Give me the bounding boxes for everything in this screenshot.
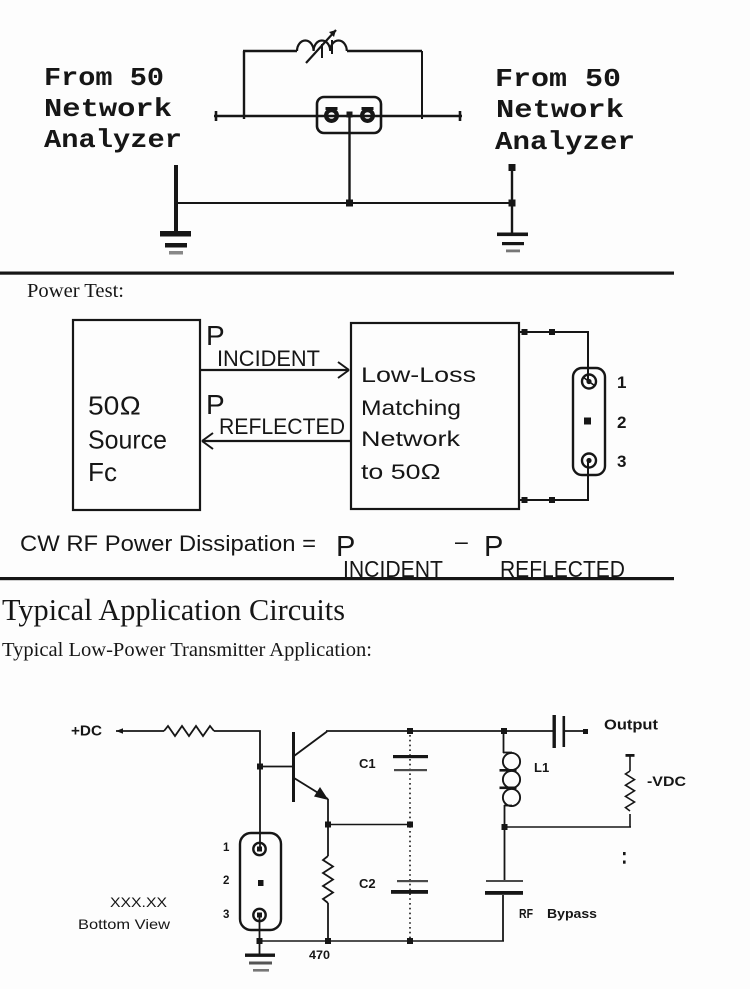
svg-text:-VDC: -VDC bbox=[647, 773, 686, 789]
svg-text:RF: RF bbox=[519, 907, 533, 921]
svg-text:From 50: From 50 bbox=[495, 64, 621, 94]
svg-text:INCIDENT: INCIDENT bbox=[217, 346, 320, 371]
label: L1 bbox=[534, 760, 549, 775]
pin 1: package top terminal bbox=[253, 843, 265, 855]
svg-text:Analyzer: Analyzer bbox=[44, 125, 182, 155]
svg-text:C1: C1 bbox=[359, 756, 376, 771]
node: base junction on vertical feed bbox=[257, 764, 263, 770]
label: 50 ohm Source Fc bbox=[88, 391, 167, 488]
node: junction ticks on bottom wire bbox=[522, 497, 556, 503]
transistor Q1: NPN (base bar, collector, emitter) bbox=[294, 732, 329, 803]
wire: emitter node to C1/C2 column bbox=[327, 824, 410, 826]
node: junction ticks on top wire bbox=[522, 329, 556, 335]
label: pin number 2 bbox=[617, 413, 626, 432]
capacitor: output coupling cap bbox=[553, 715, 589, 748]
wire: main horizontal test line bbox=[214, 111, 462, 121]
svg-text:Typical Application Circuits: Typical Application Circuits bbox=[2, 592, 345, 627]
wire: base lead bbox=[260, 766, 292, 768]
svg-text:3: 3 bbox=[617, 452, 626, 471]
wire: matching network top to DUT pin 1 bbox=[519, 332, 588, 382]
capacitor: RF bypass bbox=[485, 880, 523, 941]
label: Typical Low-Power Transmitter Application subheading bbox=[2, 639, 372, 661]
svg-text:Bottom View: Bottom View bbox=[78, 916, 171, 932]
node: junction of center tab and ground bus bbox=[346, 200, 353, 207]
arrow: variable-adjust arrow through coil bbox=[306, 30, 336, 63]
label: Typical Application Circuits heading bbox=[2, 592, 345, 627]
wire: dotted trimmer column bbox=[409, 735, 411, 938]
svg-text:2: 2 bbox=[223, 875, 229, 887]
label: pin number 1 bbox=[617, 373, 626, 392]
arrow: reflected power (right box to left box) bbox=[202, 433, 351, 449]
svg-text:Network: Network bbox=[361, 427, 460, 451]
label: +DC supply bbox=[71, 724, 103, 740]
label: RF Bypass bbox=[519, 907, 597, 921]
svg-text:1: 1 bbox=[617, 373, 626, 392]
block: low-loss matching network box bbox=[351, 323, 519, 509]
capacitor C2 bbox=[391, 880, 428, 894]
svg-text:Low-Loss: Low-Loss bbox=[361, 363, 476, 387]
pin 1: DUT top terminal bbox=[582, 375, 596, 389]
svg-text:+DC: +DC bbox=[71, 724, 103, 740]
label: From 50 Network Analyzer (left) bbox=[44, 63, 182, 155]
device: transistor package bottom view outline bbox=[240, 833, 281, 930]
pin: DUT center tab bbox=[347, 112, 353, 118]
svg-text:Analyzer: Analyzer bbox=[495, 127, 635, 157]
rule: section divider below formula bbox=[0, 577, 674, 580]
ground: transmitter earth symbol bbox=[245, 954, 275, 972]
ground: left earth symbol bbox=[160, 231, 191, 255]
wire: top branch right segment bbox=[347, 50, 422, 52]
label: Output bbox=[604, 718, 658, 734]
svg-text:XXX.XX: XXX.XX bbox=[110, 894, 168, 910]
wire: bottom return bus bbox=[259, 940, 504, 942]
device under test: 2-terminal package (top view) bbox=[317, 97, 381, 133]
label: P REFLECTED bbox=[206, 389, 345, 439]
label: C1 bbox=[359, 756, 376, 771]
svg-text:3: 3 bbox=[223, 909, 229, 921]
svg-text:Fc: Fc bbox=[88, 457, 117, 487]
svg-text:Matching: Matching bbox=[361, 396, 461, 420]
node: ground junction bbox=[257, 938, 263, 944]
label: Power Test heading bbox=[27, 280, 124, 302]
label: -VDC bbox=[647, 773, 686, 789]
resistor: -VDC dropping resistor bbox=[626, 771, 635, 827]
label: P INCIDENT bbox=[206, 320, 320, 371]
svg-text:1: 1 bbox=[223, 842, 230, 854]
svg-text:to 50Ω: to 50Ω bbox=[361, 460, 441, 484]
node: junction on dotted column mid bbox=[407, 822, 413, 828]
arrow: incident power (left box to right box) bbox=[200, 362, 349, 378]
wire: top branch left segment bbox=[243, 50, 297, 52]
pin 3: DUT bottom terminal bbox=[582, 454, 596, 468]
inductor: variable tuning coil bbox=[297, 40, 347, 51]
svg-text:Power Test:: Power Test: bbox=[27, 280, 124, 302]
wire: L1 top feed bbox=[503, 731, 512, 753]
wire: left ground drop bbox=[174, 165, 178, 232]
svg-text:C2: C2 bbox=[359, 876, 376, 891]
pin 2: DUT center tab bbox=[584, 418, 591, 425]
svg-text:2: 2 bbox=[617, 413, 626, 432]
svg-text:Network: Network bbox=[496, 95, 624, 125]
block: 50 ohm source box bbox=[73, 320, 200, 510]
svg-text:From 50: From 50 bbox=[44, 63, 164, 93]
svg-text:50Ω: 50Ω bbox=[88, 391, 141, 421]
svg-text:L1: L1 bbox=[534, 760, 549, 775]
wire: collector rail (top rail) bbox=[326, 730, 554, 732]
label: CW RF Power Dissipation formula bbox=[20, 528, 625, 582]
label: C2 bbox=[359, 876, 376, 891]
label: package pin 2 bbox=[223, 875, 229, 887]
svg-text:REFLECTED: REFLECTED bbox=[219, 414, 345, 439]
wire: package pin3 to ground node bbox=[259, 915, 261, 954]
svg-text:Output: Output bbox=[604, 718, 658, 734]
node: junction of bottom bus and dotted column bbox=[407, 938, 413, 944]
svg-text:CW RF Power Dissipation =: CW RF Power Dissipation = bbox=[20, 531, 316, 556]
wire: resistor to base node column bbox=[214, 731, 260, 849]
device under test: 3-pin package (side view) bbox=[573, 368, 605, 475]
rule: section divider above Power Test bbox=[0, 272, 674, 275]
wire: right ground drop bbox=[509, 164, 516, 233]
wire: matching network bottom to DUT pin 3 bbox=[519, 459, 588, 500]
arrow: -VDC feed tick bbox=[626, 754, 635, 771]
resistor: emitter resistor 470 bbox=[323, 856, 333, 941]
node: junction of top rail and L1 column bbox=[501, 728, 507, 734]
node: junction of top rail and C1 column bbox=[407, 728, 413, 734]
svg-text:–: – bbox=[455, 528, 468, 554]
wire: emitter drop to resistor bbox=[327, 799, 329, 856]
svg-text:Bypass: Bypass bbox=[547, 907, 597, 921]
label: XXX.XX Bottom View bbox=[78, 894, 171, 932]
pin: DUT right terminal bbox=[362, 107, 374, 121]
node: junction of ground bus and right drop bbox=[509, 200, 516, 207]
wire: DUT center tab to ground bus bbox=[348, 117, 350, 204]
node: dotted continuation marks bbox=[623, 852, 626, 864]
label: 470 resistor value bbox=[309, 948, 330, 962]
wire: bypass node to -VDC resistor bbox=[504, 826, 631, 828]
wire: right riser of parallel branch bbox=[421, 51, 423, 119]
pin 3: package bottom terminal bbox=[253, 909, 265, 921]
svg-text:470: 470 bbox=[309, 948, 330, 962]
label: package pin 3 bbox=[223, 909, 229, 921]
wire: bottom ground bus bbox=[176, 202, 512, 204]
node: bypass junction bbox=[502, 824, 508, 830]
inductor L1 bbox=[500, 753, 521, 806]
svg-text:Source: Source bbox=[88, 425, 167, 455]
pin: DUT left terminal bbox=[326, 107, 338, 121]
svg-text:Network: Network bbox=[44, 94, 172, 124]
wire: left riser of parallel branch bbox=[243, 51, 245, 119]
node: junction of emitter resistor and bottom bus bbox=[325, 938, 331, 944]
node: emitter junction bbox=[325, 822, 331, 828]
label: From 50 Network Analyzer (right) bbox=[495, 64, 635, 157]
label: package pin 1 bbox=[223, 842, 230, 854]
pin 2: package center tab bbox=[258, 880, 264, 886]
resistor: DC feed resistor bbox=[164, 726, 214, 736]
ground: right earth symbol bbox=[497, 233, 528, 253]
wire: L1 bottom to bypass node bbox=[504, 805, 512, 880]
svg-text:Typical Low-Power Transmitter: Typical Low-Power Transmitter Applicatio… bbox=[2, 639, 372, 661]
wire: +DC feed to resistor bbox=[116, 728, 164, 734]
label: pin number 3 bbox=[617, 452, 626, 471]
label: Low-Loss Matching Network to 50 ohm bbox=[361, 363, 476, 484]
capacitor C1 bbox=[393, 755, 428, 771]
